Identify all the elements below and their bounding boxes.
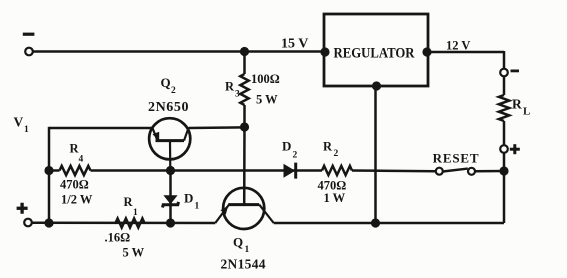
node regulator ground at bottom rail <box>371 218 380 227</box>
svg-text:1 W: 1 W <box>324 191 346 205</box>
resistor R3 <box>225 52 280 128</box>
svg-text:2: 2 <box>293 151 298 161</box>
resistor R2 <box>318 140 353 206</box>
svg-text:4: 4 <box>79 155 84 165</box>
svg-text:REGULATOR: REGULATOR <box>334 45 415 61</box>
svg-text:1: 1 <box>133 208 138 218</box>
node R3 bottom / Q1 base / Q2 collector <box>240 122 249 131</box>
wire right column down <box>503 171 506 223</box>
wire reset to junction <box>475 170 504 173</box>
svg-text:2N1544: 2N1544 <box>221 257 266 272</box>
svg-text:Q: Q <box>161 75 171 90</box>
resistor R1 <box>105 195 145 260</box>
node 15V junction (R3 top) <box>240 47 249 56</box>
svg-text:5 W: 5 W <box>123 246 145 260</box>
svg-text:R: R <box>512 97 522 112</box>
svg-text:2: 2 <box>334 149 339 159</box>
diode D2 <box>282 139 298 179</box>
svg-text:R: R <box>225 80 235 94</box>
svg-text:L: L <box>523 106 530 118</box>
wire R2 to reset switch <box>352 169 436 172</box>
svg-text:2: 2 <box>171 86 176 96</box>
transistor Q1 <box>215 188 273 272</box>
svg-text:R: R <box>323 140 333 154</box>
wire bottom rail right <box>274 222 504 225</box>
svg-text:1: 1 <box>195 202 200 212</box>
wire minus terminal to RL <box>503 76 506 95</box>
node regulator output pin <box>422 47 431 56</box>
input terminal plus <box>17 203 32 227</box>
svg-text:1/2 W: 1/2 W <box>61 193 93 207</box>
svg-text:470Ω: 470Ω <box>60 178 89 192</box>
wire R4 to D1 node <box>91 169 171 172</box>
svg-text:Q: Q <box>233 235 243 250</box>
node regulator input pin <box>320 47 329 56</box>
wire Q1 base drop <box>243 127 246 205</box>
diode D1 (zener) <box>163 171 200 224</box>
svg-text:R: R <box>124 195 134 209</box>
svg-text:12 V: 12 V <box>446 39 470 53</box>
output terminal plus <box>500 144 520 154</box>
wire Q2 collector to node <box>189 126 245 129</box>
output terminal minus <box>500 69 519 77</box>
wire middle rail to D2 <box>171 169 323 172</box>
svg-text:2N650: 2N650 <box>148 100 189 115</box>
node reset junction <box>499 166 508 175</box>
input terminal minus <box>23 33 35 56</box>
wire regulator output to right column <box>427 51 504 54</box>
svg-text:D: D <box>184 191 193 206</box>
wire regulator ground drop <box>374 86 377 223</box>
svg-text:3: 3 <box>235 90 240 100</box>
wire plus terminal to reset node <box>503 153 506 171</box>
svg-text:1: 1 <box>24 125 29 135</box>
wire V1 top to Q2 emitter <box>49 127 153 130</box>
svg-text:D: D <box>282 139 291 154</box>
svg-text:R: R <box>70 142 80 156</box>
node Q2 base / D1 / R4 <box>166 166 175 175</box>
transistor Q2 <box>148 75 190 171</box>
svg-text:V: V <box>14 115 24 130</box>
resistor RL <box>499 95 531 121</box>
node R4/V1 junction <box>44 166 53 175</box>
svg-text:.16Ω: .16Ω <box>105 231 131 245</box>
svg-text:RESET: RESET <box>433 150 480 165</box>
svg-text:1: 1 <box>245 245 250 255</box>
node D1 bottom <box>166 218 175 227</box>
svg-text:15 V: 15 V <box>281 37 308 52</box>
wire top rail <box>33 50 325 53</box>
wire bottom rail left <box>32 221 216 224</box>
wire left column <box>48 127 51 223</box>
node regulator ground pin <box>372 81 381 90</box>
resistor R4 <box>49 142 93 207</box>
switch RESET <box>433 150 480 175</box>
regulator U1 box <box>324 14 428 86</box>
svg-text:100Ω: 100Ω <box>251 72 280 86</box>
node plus/left column junction <box>44 218 53 227</box>
wire RL to plus terminal <box>503 121 506 145</box>
svg-text:5 W: 5 W <box>256 93 278 107</box>
